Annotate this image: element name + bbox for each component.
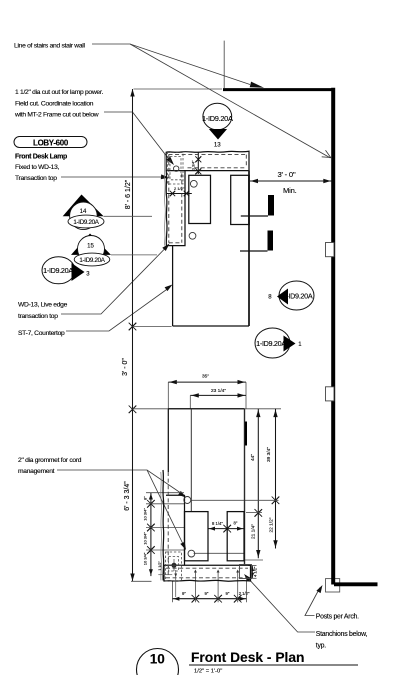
svg-text:3' - 0": 3' - 0" xyxy=(122,358,129,376)
svg-text:1-ID9.20A: 1-ID9.20A xyxy=(79,257,105,264)
svg-text:2" dia grommet for cord: 2" dia grommet for cord xyxy=(18,457,82,464)
svg-text:WD-13, Live edge: WD-13, Live edge xyxy=(18,302,68,309)
svg-text:2 1/2": 2 1/2" xyxy=(174,186,185,191)
svg-text:3: 3 xyxy=(86,271,90,277)
svg-text:2 1/2": 2 1/2" xyxy=(239,591,250,596)
svg-text:Stanchions below,: Stanchions below, xyxy=(316,631,368,638)
svg-text:10 3/4": 10 3/4" xyxy=(143,532,148,545)
svg-text:23 1/4": 23 1/4" xyxy=(211,388,226,394)
svg-text:8 1/4": 8 1/4" xyxy=(212,521,223,526)
svg-text:1/2" = 1'-0": 1/2" = 1'-0" xyxy=(194,669,222,675)
svg-text:ST-7, Countertop: ST-7, Countertop xyxy=(18,330,65,337)
svg-text:1-ID9.20A: 1-ID9.20A xyxy=(256,339,286,348)
svg-text:Transaction top: Transaction top xyxy=(15,175,57,182)
svg-text:44": 44" xyxy=(250,454,256,461)
svg-text:with MT-2 Frame cut out below: with MT-2 Frame cut out below xyxy=(14,112,99,119)
svg-text:1 1/2": 1 1/2" xyxy=(158,561,162,571)
svg-text:8' - 6 1/2": 8' - 6 1/2" xyxy=(125,179,132,209)
svg-text:35": 35" xyxy=(202,374,209,380)
svg-text:9": 9" xyxy=(182,591,186,596)
svg-text:Line of stairs and stair wall: Line of stairs and stair wall xyxy=(14,43,85,50)
svg-text:6' - 3 3/4": 6' - 3 3/4" xyxy=(124,481,131,511)
svg-text:management: management xyxy=(18,468,55,475)
svg-text:Min.: Min. xyxy=(283,186,297,195)
svg-text:1-ID9.20A: 1-ID9.20A xyxy=(43,266,73,275)
svg-text:10: 10 xyxy=(150,651,165,666)
svg-text:8: 8 xyxy=(268,295,272,301)
svg-text:typ.: typ. xyxy=(316,642,326,649)
svg-text:8": 8" xyxy=(234,520,238,525)
svg-text:13: 13 xyxy=(214,142,221,149)
svg-text:9": 9" xyxy=(226,591,230,596)
svg-text:8": 8" xyxy=(143,496,148,500)
svg-text:1: 1 xyxy=(298,342,302,348)
svg-text:4 1/2": 4 1/2" xyxy=(253,566,258,577)
svg-text:1-ID9.20A: 1-ID9.20A xyxy=(73,219,99,226)
svg-text:Front Desk Lamp: Front Desk Lamp xyxy=(15,154,67,161)
svg-text:1 1/2" dia cut out for lamp po: 1 1/2" dia cut out for lamp power. xyxy=(15,89,103,96)
svg-text:14: 14 xyxy=(80,209,87,215)
svg-text:Field cut. Coordinate location: Field cut. Coordinate location xyxy=(15,100,94,107)
svg-text:22 1/2": 22 1/2" xyxy=(268,517,274,532)
svg-text:transaction top: transaction top xyxy=(18,313,58,320)
svg-text:10 3/4": 10 3/4" xyxy=(143,552,148,565)
svg-text:Fixed to WD-13,: Fixed to WD-13, xyxy=(15,164,60,171)
svg-text:21 1/4": 21 1/4" xyxy=(250,524,256,539)
svg-text:LOBY-600: LOBY-600 xyxy=(33,139,69,148)
svg-text:15: 15 xyxy=(87,244,94,250)
svg-text:3' - 0": 3' - 0" xyxy=(278,170,296,179)
svg-text:Posts per Arch.: Posts per Arch. xyxy=(316,613,359,620)
svg-text:3 3/4": 3 3/4" xyxy=(192,160,196,170)
svg-text:39 3/4": 39 3/4" xyxy=(266,447,272,462)
svg-text:10 3/4": 10 3/4" xyxy=(143,508,148,521)
svg-text:Front Desk - Plan: Front Desk - Plan xyxy=(191,650,304,665)
svg-text:1-ID9.20A: 1-ID9.20A xyxy=(202,114,233,123)
svg-text:9": 9" xyxy=(205,591,209,596)
